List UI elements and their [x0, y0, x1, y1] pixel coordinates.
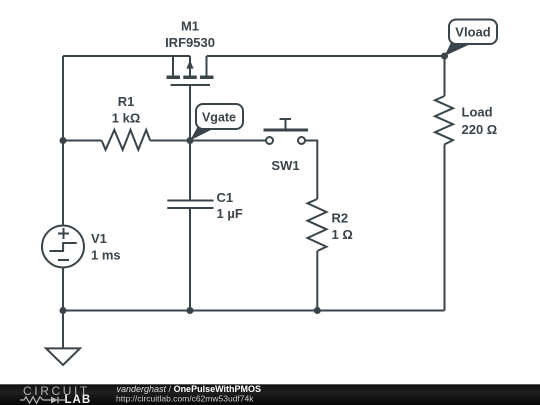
wire R2 lower lead: [316, 251, 318, 311]
svg-text:http://circuitlab.com/c62mw53u: http://circuitlab.com/c62mw53udf74k: [116, 393, 254, 403]
svg-text:V1: V1: [91, 231, 107, 246]
svg-text:M1: M1: [181, 19, 199, 34]
node Vgate label callout: [190, 104, 243, 141]
CircuitLab logo resistor-diode symbol: [20, 397, 65, 404]
svg-text:1 ms: 1 ms: [91, 247, 121, 262]
svg-text:R1: R1: [118, 94, 135, 109]
svg-text:1 Ω: 1 Ω: [332, 227, 353, 242]
node dot bottom C1: [187, 307, 194, 314]
source V1 (step pulse): [42, 226, 84, 268]
wire bottom rail: [63, 310, 445, 312]
wire top rail right: [207, 55, 445, 57]
wire right rail upper: [444, 56, 446, 96]
footer bar: [0, 384, 540, 405]
wire C1 upper lead: [189, 141, 191, 201]
svg-text:Vload: Vload: [455, 25, 490, 40]
resistor Load: [435, 96, 453, 144]
node dot Vgate: [187, 137, 194, 144]
svg-text:1 kΩ: 1 kΩ: [112, 111, 141, 126]
node dot bottom left: [60, 307, 67, 314]
svg-text:Load: Load: [462, 104, 493, 119]
ground: [46, 348, 80, 365]
resistor R1: [102, 130, 151, 150]
node dot R1 left: [60, 137, 67, 144]
svg-text:IRF9530: IRF9530: [165, 35, 215, 50]
svg-text:C1: C1: [217, 190, 234, 205]
wire top rail left: [63, 55, 190, 57]
wire R1 left: [63, 140, 102, 142]
wire V1 lower lead: [62, 268, 64, 349]
svg-text:Vgate: Vgate: [202, 111, 236, 125]
wire right rail lower: [444, 144, 446, 310]
wire gate lead: [189, 85, 191, 141]
wire SW1 to R2 corner: [305, 141, 317, 200]
svg-text:1 µF: 1 µF: [217, 206, 243, 221]
wire R1 to SW1: [150, 140, 266, 142]
transistor M1 IRF9530 (PMOS): [167, 56, 214, 85]
switch SW1 (pushbutton): [264, 119, 309, 144]
resistor R2: [308, 199, 327, 251]
svg-text:SW1: SW1: [271, 158, 299, 173]
svg-text:220 Ω: 220 Ω: [462, 122, 498, 137]
svg-text:LAB: LAB: [65, 394, 92, 405]
capacitor C1: [167, 201, 213, 209]
node Vload label callout: [445, 20, 498, 57]
wire C1 lower lead: [189, 208, 191, 311]
node dot bottom R2: [314, 307, 321, 314]
svg-text:R2: R2: [332, 210, 349, 225]
wire left rail upper: [62, 56, 64, 226]
node dot Vload: [441, 53, 448, 60]
